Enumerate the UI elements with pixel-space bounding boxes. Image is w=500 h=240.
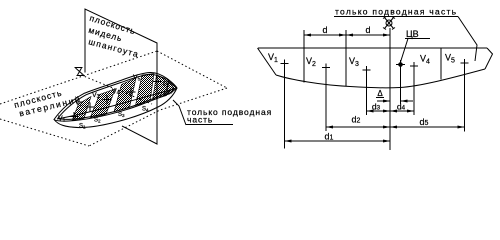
plus V3 — [363, 66, 371, 74]
svg-text:V1: V1 — [58, 116, 66, 124]
CB leader — [401, 39, 409, 63]
svg-text:V2: V2 — [75, 100, 83, 108]
axis mark X (left) — [75, 68, 85, 76]
waterline plane top-right dashed edge — [157, 51, 227, 88]
plus V4 — [410, 62, 418, 70]
hull outer rim — [54, 72, 177, 121]
svg-text:d: d — [322, 25, 327, 35]
centroid V2 vertical — [325, 68, 327, 132]
plus V2 — [322, 64, 330, 72]
hull bottom band — [54, 88, 177, 128]
CB point — [398, 62, 403, 67]
waterline plane bottom-left dashed edge — [0, 119, 89, 146]
plus V2 (left) — [86, 103, 95, 112]
svg-text:S1: S1 — [79, 124, 86, 130]
CB cross — [396, 60, 405, 69]
midship plane outline — [85, 9, 157, 144]
plane intersection trace — [81, 75, 152, 104]
centroid V3 vertical — [366, 70, 368, 115]
transom — [485, 48, 493, 69]
centroid V5 vertical — [464, 63, 466, 132]
CB underline — [405, 38, 430, 40]
plus V4 (left) — [127, 88, 136, 97]
svg-text:S3: S3 — [118, 112, 125, 118]
top dimension line d d — [304, 34, 390, 36]
leader to hull label — [173, 100, 186, 125]
divider V4/V5 — [440, 48, 442, 80]
top label underline — [334, 16, 458, 18]
plus V5 (left) — [153, 77, 162, 86]
delta underline — [376, 97, 384, 99]
hatched section patch V1 — [72, 97, 91, 121]
svg-text:ЦВ: ЦВ — [406, 29, 419, 39]
svg-text:V3: V3 — [92, 92, 100, 100]
hull label underline — [186, 124, 233, 126]
hatched section patch V4 — [136, 74, 155, 106]
top label leader — [458, 17, 477, 62]
hull inner rim — [58, 74, 174, 119]
d2 dim — [326, 126, 390, 128]
hatched section patch V5 — [153, 75, 169, 100]
centroid V4 vertical — [413, 66, 415, 115]
svg-text:S5: S5 — [163, 82, 170, 88]
midship line — [389, 28, 391, 150]
waterline plane bottom-right dashed edge — [89, 88, 227, 146]
svg-text:V5: V5 — [133, 75, 141, 83]
plus V1 (left) — [70, 112, 79, 121]
svg-text:Δ: Δ — [377, 89, 383, 98]
svg-text:V4: V4 — [112, 89, 120, 97]
svg-text:S4: S4 — [142, 107, 149, 113]
bow slant — [258, 48, 277, 75]
keel curve — [276, 69, 485, 88]
plus V1 — [281, 60, 289, 68]
hatched section patch V3 — [114, 78, 136, 112]
d5 dim — [390, 126, 465, 128]
svg-text:только подводная часть: только подводная часть — [335, 7, 457, 17]
d1 dim — [285, 140, 391, 142]
arrows top dims — [304, 34, 390, 37]
CB vertical — [400, 65, 402, 105]
divider V2/V3 — [345, 30, 347, 87]
svg-text:d: d — [365, 25, 370, 35]
centroid V1 vertical — [284, 64, 286, 149]
plus V5 — [461, 59, 469, 67]
waterline — [258, 47, 487, 49]
svg-text:S2: S2 — [94, 118, 101, 124]
waterline plane top-left dashed edge — [0, 51, 157, 104]
svg-text:часть: часть — [187, 115, 213, 125]
hull keel centerline — [57, 89, 174, 119]
delta dim — [377, 100, 413, 102]
plus V3 (left) — [103, 95, 112, 104]
d3 d4 dim line — [367, 110, 415, 112]
hatched stern cap — [165, 81, 177, 96]
hatched section patch V2 — [90, 89, 115, 118]
midship symbol — [383, 17, 395, 30]
divider V1/V2 — [303, 30, 305, 83]
